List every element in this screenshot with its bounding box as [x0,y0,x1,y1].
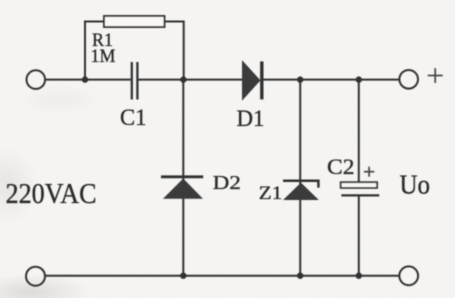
node junction bottom C2 branch [356,273,362,279]
svg-text:Uo: Uo [400,170,431,200]
svg-text:220VAC: 220VAC [6,178,97,210]
zener diode Z1 [283,181,318,200]
capacitor C1 [132,62,138,100]
node junction top R1 tap [82,76,88,82]
output terminal plus (top right) [399,70,418,89]
wire C2 branch upper [358,80,360,183]
svg-text:C2: C2 [327,154,355,179]
input terminal bottom left [26,267,45,286]
wire R1 branch left riser [85,22,104,80]
node junction top C2 branch [356,76,362,82]
node junction bottom Z1 branch [297,273,303,279]
diode D1 [243,61,262,99]
input terminal top left [27,70,46,89]
svg-text:D2: D2 [213,172,241,194]
diode D2 [161,177,203,198]
capacitor C2 (electrolytic) [341,182,380,195]
wire D2 branch vertical [182,80,184,276]
svg-text:1M: 1M [91,46,116,67]
output terminal minus (bottom right) [399,266,418,285]
node junction top Z1 branch [297,76,303,82]
wire top rail segment left (input to C1) [45,79,131,81]
plus sign at output terminal [428,68,443,83]
wire C2 branch lower [358,195,360,275]
svg-text:Z1: Z1 [259,184,283,204]
wire Z1 branch vertical [299,80,301,276]
wire top rail segment middle (C1 to D1) [138,79,242,81]
node junction top D2 branch [180,76,186,82]
resistor R1 [104,16,165,27]
polarity + of C2 [364,167,374,177]
svg-text:C1: C1 [120,105,147,131]
node junction bottom D2 branch [180,273,186,279]
wire R1 branch right riser [165,22,184,80]
svg-text:D1: D1 [237,106,265,132]
wire top rail segment right (D1 to output +) [263,79,399,81]
wire bottom rail [45,275,399,277]
